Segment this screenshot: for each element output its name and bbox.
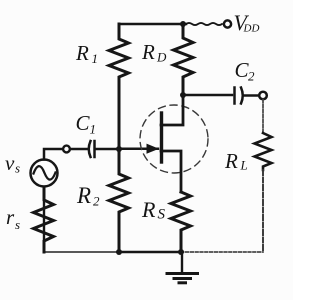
ground	[181, 252, 183, 272]
resistor R1	[109, 24, 129, 149]
wire vs to input terminal	[44, 149, 63, 160]
capacitor C2	[233, 88, 236, 104]
resistor RS	[171, 192, 191, 252]
node R2 bottom junction dot	[116, 249, 122, 255]
svg-text:S: S	[158, 207, 166, 223]
wire top rail	[119, 23, 186, 26]
transistor Q1 dashed circle	[140, 105, 208, 173]
wire RL down to bottom rail	[262, 170, 264, 252]
svg-text:s: s	[15, 217, 20, 232]
wire terminal to C1	[70, 148, 88, 151]
wire output terminal down to RL	[262, 100, 264, 134]
node gate junction dot	[116, 146, 122, 152]
resistor rs	[34, 187, 54, 252]
gate arrowhead	[147, 144, 160, 154]
svg-text:R: R	[141, 197, 156, 222]
svg-text:R: R	[224, 149, 238, 173]
terminal output open circle	[259, 92, 267, 100]
resistor RD	[174, 24, 194, 95]
svg-text:v: v	[5, 151, 15, 175]
transistor Q1 source lead	[161, 151, 181, 192]
wire C2 branch from drain node	[183, 94, 232, 97]
svg-text:r: r	[6, 205, 15, 229]
wire squiggle to VDD terminal	[186, 23, 222, 25]
wire C2 to output terminal	[244, 94, 259, 97]
svg-text:R: R	[75, 41, 89, 65]
svg-text:R: R	[76, 183, 91, 208]
wire gate lead	[119, 147, 158, 150]
svg-text:R: R	[141, 40, 155, 64]
node drain junction dot	[180, 92, 186, 98]
node RS bottom junction dot	[178, 249, 184, 255]
transistor Q1 channel bar	[160, 113, 163, 162]
terminal VDD open circle	[224, 20, 231, 27]
terminal input open circle	[63, 146, 70, 153]
svg-text:D: D	[156, 50, 167, 65]
wire C1 to gate node	[95, 148, 119, 151]
node top rail junction dot	[180, 21, 186, 27]
wire bottom rail left (rs to R2)	[44, 251, 119, 253]
svg-text:2: 2	[248, 69, 255, 84]
wire bottom rail middle	[119, 251, 181, 253]
svg-text:1: 1	[92, 51, 99, 66]
svg-text:C: C	[76, 111, 91, 135]
wire bottom rail right dotted	[181, 251, 263, 253]
capacitor C1	[89, 141, 91, 157]
svg-text:s: s	[15, 161, 20, 176]
wire vs-rs riser to rail	[43, 187, 45, 252]
svg-text:1: 1	[90, 122, 97, 137]
transistor Q1 drain lead	[161, 95, 183, 125]
svg-text:L: L	[240, 158, 248, 173]
source vs sine generator	[31, 160, 58, 187]
svg-text:2: 2	[93, 194, 100, 209]
resistor R2	[109, 149, 129, 252]
svg-text:DD: DD	[243, 23, 260, 35]
resistor RL	[255, 133, 272, 170]
